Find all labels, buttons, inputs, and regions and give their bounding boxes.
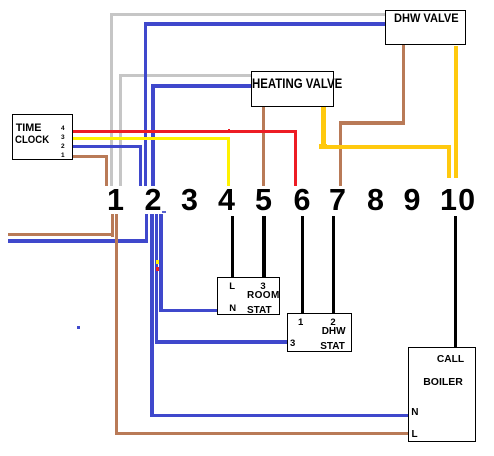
wire: blue from TIME CLOCK terminal 2, vertical drop to terminal 2	[139, 145, 142, 186]
wire: black terminal 5 to ROOM STAT 3	[262, 216, 265, 279]
wire: grey from DHW VALVE, horizontal top run	[110, 13, 385, 16]
wire: brown from DHW VALVE, horizontal jog left	[339, 121, 405, 124]
wire: blue terminal 2 to DHW STAT 3, vertical	[155, 214, 158, 344]
wire: blue to DHW VALVE, horizontal run	[144, 22, 385, 26]
pin 3 of DHW STAT	[290, 339, 295, 349]
wire: blue to HEATING VALVE, vertical drop to terminal 2	[151, 84, 154, 186]
wire: grey from DHW VALVE, vertical drop to terminal 1	[110, 13, 113, 186]
label DHW VALVE	[394, 14, 459, 26]
pin 2 of TIME CLOCK	[61, 144, 65, 151]
node terminal 5	[255, 185, 272, 216]
wire: yellow from TIME CLOCK terminal 3, vertical drop to terminal 4	[227, 137, 230, 186]
wire: gold yellow from DHW VALVE bottom to terminal 10, vertical	[454, 46, 459, 178]
pin L of ROOM STAT	[229, 282, 235, 292]
label ROOM of ROOM STAT	[247, 291, 280, 301]
wire: blue terminal 2 to ROOM STAT N, horizontal	[159, 309, 218, 313]
wire: brown from DHW VALVE bottom, vertical	[402, 44, 406, 125]
label CALL of CALL BOILER	[437, 355, 464, 365]
wire: gold yellow corner foot at heating valve drop	[319, 144, 327, 149]
node terminal 6	[294, 185, 311, 216]
wire: black terminal 10 to CALL BOILER top	[454, 216, 457, 348]
stray yellow mark on blue wire	[156, 260, 159, 264]
pin 1 of TIME CLOCK	[61, 153, 65, 160]
box: HEATING VALVE	[251, 71, 334, 107]
wire: blue long feed from left edge, horizontal	[8, 239, 148, 243]
wire: blue from TIME CLOCK terminal 2, horizontal	[72, 145, 142, 149]
wire: brown from HEATING VALVE bottom to terminal 5, vertical	[262, 105, 265, 186]
wire: brown from DHW VALVE, vertical drop to terminal 7	[339, 121, 342, 186]
node terminal 7	[329, 185, 346, 216]
wire: blue terminal 2 to CALL BOILER N, horizontal	[150, 414, 409, 417]
wire: black terminal 7 to DHW STAT 2	[332, 216, 335, 314]
box: ROOM STAT	[217, 277, 281, 315]
node terminal 1	[107, 185, 124, 216]
wire: blue terminal 2 to CALL BOILER N, vertical	[150, 214, 153, 417]
box: DHW STAT	[287, 313, 352, 352]
wire: brown from TIME CLOCK terminal 1, vertical drop to terminal 1	[105, 155, 108, 186]
stray blue tick right of terminal 2	[162, 211, 167, 213]
wire: brown feed, vertical rise to terminal 1	[111, 214, 114, 237]
stray red nub on red wire	[228, 129, 231, 130]
pin 2 of DHW STAT	[330, 318, 335, 328]
pin N of CALL BOILER	[411, 408, 418, 418]
wire: brown from TIME CLOCK terminal 1, horizontal	[72, 155, 108, 158]
wire: blue terminal 2 to ROOM STAT N, vertical	[159, 214, 162, 312]
pin 4 of TIME CLOCK	[61, 126, 65, 133]
pin N of ROOM STAT	[229, 304, 236, 314]
node terminal 10	[440, 185, 476, 216]
wire: red from TIME CLOCK terminal 4, horizontal	[72, 130, 297, 133]
wire: blue long feed, vertical rise to terminal 2	[145, 214, 148, 243]
box: DHW VALVE	[385, 10, 466, 46]
pin 3 of TIME CLOCK	[61, 135, 65, 142]
wire: black terminal 6 to DHW STAT 1	[301, 216, 304, 314]
pin 3 of ROOM STAT	[260, 282, 265, 292]
node terminal 2	[145, 185, 162, 216]
label DHW of DHW STAT	[322, 327, 346, 337]
wire: brown terminal 1 to CALL BOILER L, vertical	[115, 214, 118, 435]
wire: yellow from TIME CLOCK terminal 3, horizontal	[72, 137, 230, 140]
wire: gold yellow from HEATING VALVE bottom, vertical	[321, 105, 324, 108]
box: TIME CLOCK	[12, 114, 73, 161]
label STAT of DHW STAT	[320, 342, 345, 352]
wire: black terminal 4 to ROOM STAT L	[231, 216, 234, 279]
wire: blue to HEATING VALVE, horizontal run	[151, 84, 252, 88]
label TIME of TIME CLOCK	[16, 123, 42, 134]
pin L of CALL BOILER	[412, 430, 418, 440]
label HEATING VALVE	[252, 76, 342, 90]
node terminal 4	[218, 185, 235, 216]
label CLOCK of TIME CLOCK	[15, 135, 49, 146]
wire: grey from HEATING VALVE, horizontal run	[119, 74, 254, 77]
node terminal 3	[181, 185, 198, 216]
node terminal 8	[367, 185, 384, 216]
node terminal 9	[404, 185, 421, 216]
stray red mark on blue wire	[156, 267, 159, 271]
pin 1 of DHW STAT	[298, 318, 303, 328]
wire: blue terminal 2 to DHW STAT 3, horizontal	[155, 340, 288, 344]
wire: brown feed from left edge, horizontal	[8, 233, 114, 236]
label STAT of ROOM STAT	[247, 306, 272, 316]
wire: gold yellow horizontal run to terminal 10	[319, 145, 451, 149]
wire: gold yellow vertical drop to terminal 10	[447, 145, 451, 178]
wire: brown terminal 1 to CALL BOILER L, horizontal	[115, 432, 409, 435]
wire: grey from HEATING VALVE, vertical drop to terminal 1	[119, 74, 122, 187]
box: CALL BOILER	[408, 347, 476, 442]
wire: red from TIME CLOCK terminal 4, vertical drop to terminal 6	[294, 130, 297, 186]
stray blue mark	[77, 326, 80, 329]
label BOILER of CALL BOILER	[423, 377, 463, 388]
wire: blue to DHW VALVE, vertical drop to terminal 2	[144, 22, 147, 186]
